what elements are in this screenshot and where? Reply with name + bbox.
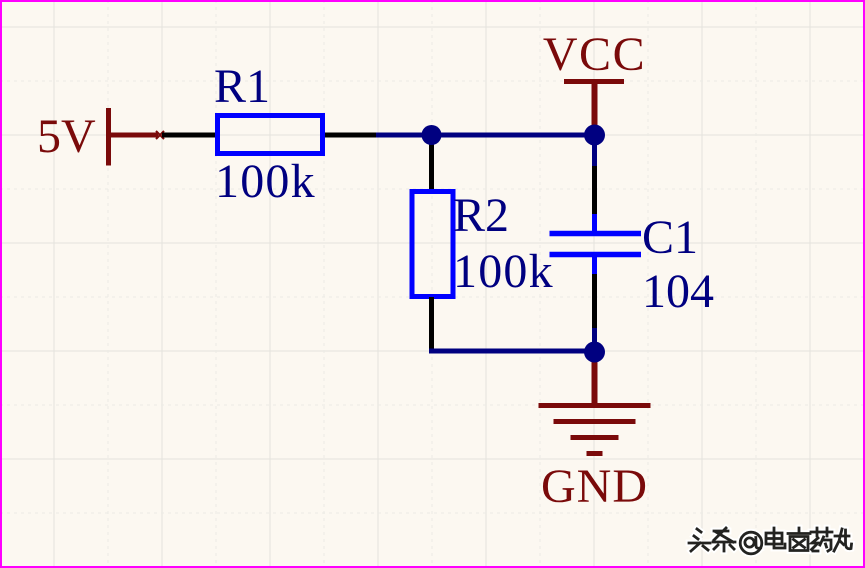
wire R1 pin 2 to node A (black part) — [325, 133, 376, 138]
svg-text:GND: GND — [541, 460, 648, 513]
wire node A segment (navy) to node B — [376, 133, 594, 138]
wire R2 pin 2 down to bottom net — [429, 297, 434, 351]
svg-text:VCC: VCC — [543, 28, 646, 81]
svg-text:104: 104 — [642, 265, 714, 318]
ground symbol GND — [539, 352, 651, 454]
junction node C — [584, 342, 605, 363]
port 5V symbol — [109, 108, 165, 166]
svg-text:C1: C1 — [642, 211, 698, 264]
capacitor C1 — [550, 214, 642, 274]
power symbol VCC — [564, 82, 624, 136]
resistor R1 — [218, 116, 323, 154]
junction node A — [422, 125, 442, 145]
svg-text:R1: R1 — [214, 60, 270, 113]
wire node A down to R2 pin 1 — [429, 135, 434, 189]
svg-text:100k: 100k — [215, 155, 316, 208]
junction node B — [584, 125, 605, 146]
svg-text:5V: 5V — [37, 110, 96, 163]
wire stub to node C (navy) — [592, 328, 597, 351]
wire port to R1 pin 1 — [162, 133, 216, 138]
wire node B stub (navy) — [592, 135, 597, 166]
wire bottom net to node C (navy) — [429, 349, 594, 354]
resistor R2 — [412, 192, 453, 297]
wire C1 pin 2 down (black) — [592, 274, 597, 328]
wire node B down to C1 pin 1 (black) — [592, 166, 597, 215]
svg-text:100k: 100k — [453, 245, 554, 298]
svg-text:R2: R2 — [453, 189, 509, 242]
